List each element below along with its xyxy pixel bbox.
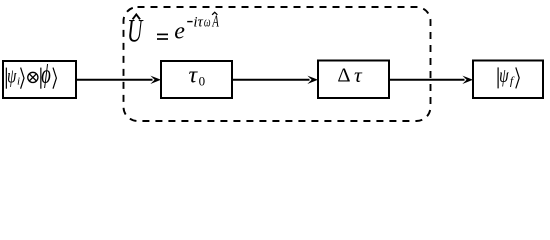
- delta-tau box: [318, 61, 389, 99]
- ket bar: [497, 67, 499, 88]
- arrowhead at delta-tau box: [307, 76, 318, 84]
- svg-text:i: i: [17, 76, 20, 88]
- svg-text:ψ: ψ: [499, 64, 509, 86]
- tau0 delay box: [161, 61, 232, 98]
- svg-text:ω: ω: [204, 13, 211, 30]
- rangle 1: [21, 68, 24, 89]
- ket bar 2: [40, 68, 42, 89]
- svg-text:ψ: ψ: [7, 64, 17, 87]
- label delta tau: [337, 63, 363, 87]
- svg-text:ϕ: ϕ: [41, 59, 51, 88]
- svg-text:e: e: [174, 19, 185, 45]
- svg-text:0: 0: [199, 73, 206, 88]
- hat over A: [212, 12, 217, 15]
- input label |psi_i> otimes |phi>: [6, 59, 56, 88]
- otimes: [28, 72, 38, 82]
- wire: input box to tau0 box: [76, 79, 153, 81]
- svg-text:U: U: [127, 12, 144, 49]
- svg-text:τ: τ: [354, 63, 363, 87]
- hat over U: [133, 14, 140, 19]
- svg-text:iτ: iτ: [193, 14, 203, 30]
- label U-hat = e^(-i tau omega A-hat): [127, 12, 219, 49]
- rangle: [516, 67, 519, 88]
- wire: tau0 box to delta-tau box: [232, 79, 310, 81]
- svg-text:τ: τ: [189, 62, 199, 88]
- label tau_0: [189, 62, 206, 88]
- ket bar 1: [5, 68, 7, 89]
- svg-text:Δ: Δ: [337, 65, 350, 87]
- output state box: [473, 61, 543, 99]
- dashed evolution region boundary: [124, 7, 431, 121]
- minus in exponent: [187, 21, 192, 23]
- wire: delta-tau box to output box: [389, 79, 465, 81]
- rangle 2: [53, 68, 56, 89]
- input state box: [3, 61, 76, 98]
- output label |psi_f>: [498, 64, 519, 88]
- equals: [157, 33, 168, 35]
- arrowhead at tau0 box: [150, 76, 161, 84]
- arrowhead at output box: [462, 76, 473, 84]
